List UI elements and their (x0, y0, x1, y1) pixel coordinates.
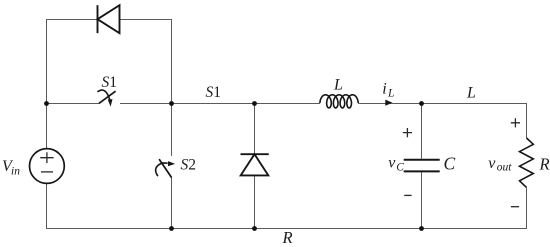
svg-text:S1: S1 (206, 84, 222, 101)
svg-text:C: C (396, 162, 404, 174)
svg-text:v: v (388, 154, 396, 171)
svg-text:C: C (444, 153, 456, 173)
svg-text:in: in (11, 166, 20, 178)
svg-text:v: v (488, 155, 496, 172)
svg-text:i: i (382, 81, 386, 98)
svg-text:L: L (466, 85, 476, 102)
svg-text:L: L (387, 88, 394, 100)
svg-text:R: R (539, 155, 550, 174)
svg-text:S2: S2 (181, 157, 197, 174)
svg-text:L: L (333, 77, 343, 94)
svg-text:R: R (282, 228, 293, 247)
svg-text:S1: S1 (102, 74, 118, 91)
svg-text:out: out (497, 162, 513, 174)
